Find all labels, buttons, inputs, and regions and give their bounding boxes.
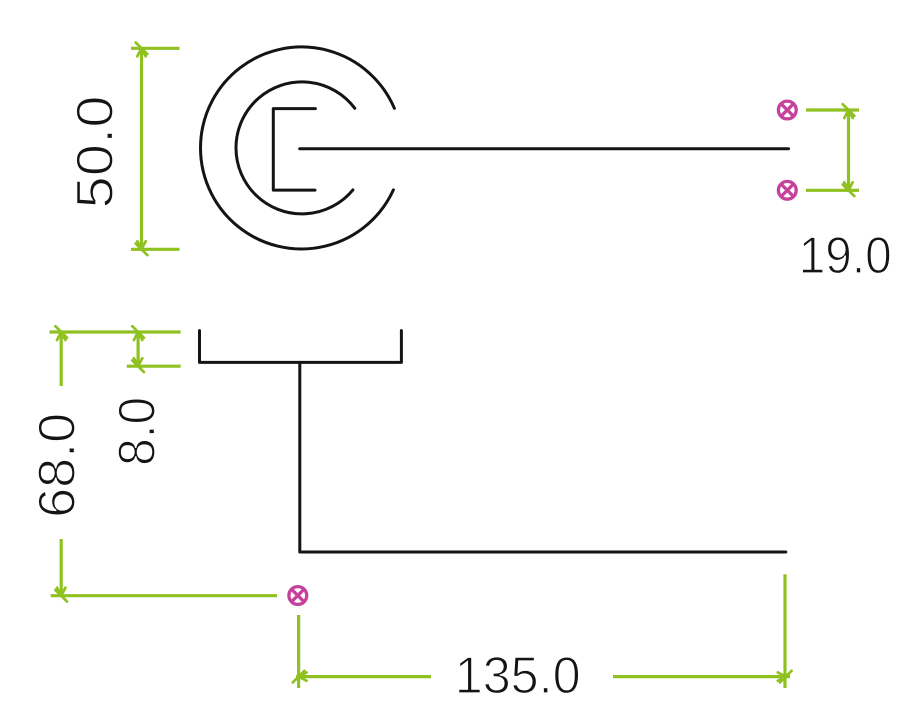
dimension 135.0 extension line left xyxy=(297,615,300,688)
rose profile (side view) xyxy=(200,331,402,363)
dimension 68.0 line upper segment xyxy=(60,331,63,386)
dimension 135.0 line left segment xyxy=(296,675,431,678)
dimension 8.0 tick top xyxy=(132,326,144,340)
svg-text:8.0: 8.0 xyxy=(109,397,167,466)
dimension 8.0 extension line bottom xyxy=(127,365,181,368)
inner rose circle (top view) xyxy=(236,82,355,214)
screw hole top (top view) xyxy=(778,101,796,119)
dimension 68.0 extension line bottom xyxy=(51,594,277,597)
dimension 19.0 tick top xyxy=(843,104,855,118)
screw hole (side view) xyxy=(289,587,307,605)
dimension 50.0 extension line bottom xyxy=(131,248,180,251)
dimension 19.0 line xyxy=(847,109,850,192)
lever neck and grip (side view) xyxy=(300,362,786,552)
svg-text:50.0: 50.0 xyxy=(66,96,124,209)
dimension 135.0 line right segment xyxy=(613,675,790,678)
spindle square bracket (top view) xyxy=(273,109,315,191)
dimension 135.0 extension line right xyxy=(783,574,786,688)
dimension 68.0 tick bottom xyxy=(55,588,67,602)
lever grip centre line (top view) xyxy=(300,147,789,150)
svg-text:68.0: 68.0 xyxy=(28,413,86,518)
dimension 135.0 tick right xyxy=(778,671,792,683)
dimension 8.0 tick bottom xyxy=(132,358,144,372)
dimension 68.0 extension line top (shared with 8.0) xyxy=(50,330,181,333)
dimension 50.0 extension line top xyxy=(131,47,180,50)
screw hole bottom (top view) xyxy=(778,181,796,199)
svg-text:135.0: 135.0 xyxy=(455,647,581,705)
dimension 135.0 tick left xyxy=(293,671,307,683)
dimension 68.0 tick top xyxy=(55,326,67,340)
dimension 68.0 line lower segment xyxy=(60,539,63,597)
dimension 50.0 line xyxy=(140,47,143,251)
dimension 19.0 extension line top xyxy=(806,108,859,111)
outer rose circle (top view) xyxy=(201,47,395,249)
dimension 50.0 tick top xyxy=(136,43,148,57)
dimension 19.0 tick bottom xyxy=(843,182,855,196)
dimension 50.0 tick bottom xyxy=(136,241,148,255)
svg-text:19.0: 19.0 xyxy=(799,227,892,285)
dimension 19.0 extension line bottom xyxy=(806,189,859,192)
dimension 8.0 line xyxy=(137,331,140,368)
